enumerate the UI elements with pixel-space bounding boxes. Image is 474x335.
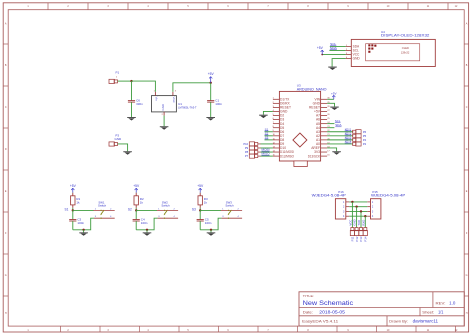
svg-text:GND: GND: [353, 219, 357, 225]
switch SW3: [221, 200, 242, 219]
svg-text:7: 7: [273, 122, 274, 124]
svg-text:P10: P10: [243, 142, 248, 146]
svg-text:GND: GND: [161, 104, 165, 110]
svg-text:100n: 100n: [215, 102, 222, 106]
svg-text:+5V: +5V: [197, 184, 204, 188]
wire SW2 to ground net: [136, 218, 157, 230]
svg-text:D: D: [466, 148, 468, 151]
connector P11: [350, 228, 354, 242]
svg-text:100n: 100n: [77, 221, 84, 225]
resistor R1 1k: [71, 193, 81, 208]
wire P16 pin 1 to P15 pin 1: [349, 201, 367, 203]
svg-text:New Schematic: New Schematic: [303, 300, 354, 307]
capacitor C3 100n: [69, 218, 84, 225]
svg-text:OLED: OLED: [402, 46, 409, 50]
wire node S2 down to C4: [135, 210, 137, 219]
connector P14: [363, 228, 367, 242]
svg-text:Drawn By:: Drawn By:: [389, 318, 408, 323]
connector P5: [352, 134, 366, 138]
switch SW2: [157, 200, 178, 219]
connector P10: [243, 142, 260, 146]
U3 left pin stubs: [273, 99, 280, 156]
wire C6 to ground: [131, 102, 133, 117]
junction node S3: [199, 209, 201, 211]
wire U3 A0 to P2: [327, 143, 352, 145]
wire U3 GND right to ground: [327, 103, 334, 106]
wire P8 to U3 D11 (MOSI): [261, 151, 273, 153]
svg-text:2: 2: [346, 49, 347, 51]
+5V flag (switch 1): [70, 184, 77, 192]
svg-text:+5V: +5V: [133, 184, 140, 188]
resistor R3 1k: [198, 193, 208, 208]
wire U1 GND to ground: [163, 116, 165, 127]
wire P16 pin 2 to P15 pin 2: [349, 206, 367, 208]
svg-text:DISPLAY-OLED-128X32: DISPLAY-OLED-128X32: [381, 33, 430, 38]
wire net SCL (U3 A5): [327, 123, 334, 125]
+5V flag (switch 2): [133, 184, 140, 192]
connector P16 WJEDG4-5.08-4P: [312, 190, 350, 219]
connector P4: [352, 138, 366, 142]
svg-text:ARDUINO_NANO: ARDUINO_NANO: [297, 86, 327, 91]
connector P1: [109, 71, 120, 84]
connector P2: [352, 142, 366, 146]
connector P6: [352, 130, 366, 134]
svg-text:D12/MISO: D12/MISO: [280, 154, 294, 158]
svg-text:27: 27: [327, 110, 329, 112]
IC U3 ARDUINO_NANO: [279, 84, 326, 167]
wire C5 to ground net: [199, 221, 201, 230]
svg-text:Vin: Vin: [154, 97, 158, 102]
svg-text:28: 28: [327, 106, 329, 108]
svg-text:WJEDG4-5.08-4P: WJEDG4-5.08-4P: [312, 194, 346, 198]
svg-text:4: 4: [346, 57, 347, 59]
ground (switch 1): [79, 232, 88, 235]
svg-text:+5V: +5V: [331, 92, 338, 96]
wire junction to ground (switch 1): [83, 230, 85, 233]
junction GND net: [355, 205, 357, 207]
svg-text:S1: S1: [64, 207, 68, 211]
wire +5V to R1: [72, 192, 74, 194]
U3 right pin stubs: [321, 99, 328, 156]
wire P16 pin 4 to P15 pin 4: [349, 215, 367, 217]
wire net S3 (U3 D8): [265, 139, 273, 141]
junction RXD net: [364, 215, 366, 217]
junction +5V (U4): [321, 54, 323, 56]
wire RXD down to P14: [364, 216, 366, 227]
wire R3 to node S3: [199, 208, 201, 211]
junction TXD net: [360, 210, 362, 212]
svg-text:2018-05-05: 2018-05-05: [319, 309, 345, 314]
svg-text:GND: GND: [115, 137, 123, 141]
ground (U3 left): [259, 115, 268, 118]
svg-text:8: 8: [273, 126, 274, 128]
wire node S3 to SW3: [200, 209, 221, 211]
svg-text:10: 10: [273, 134, 275, 136]
svg-text:Vout: Vout: [172, 97, 176, 103]
wire node to U1 Vin: [132, 81, 156, 92]
svg-text:D13/SCK: D13/SCK: [308, 154, 321, 158]
svg-text:25: 25: [327, 118, 329, 120]
resistor R2 1k: [134, 193, 144, 208]
svg-text:1k: 1k: [140, 200, 144, 204]
wire C4 to ground net: [135, 221, 137, 230]
svg-text:P5: P5: [363, 134, 367, 138]
junction VCC net: [351, 201, 353, 203]
wire +5V to R2: [135, 192, 137, 194]
capacitor C6 330n: [128, 99, 143, 106]
connector P7: [245, 154, 261, 158]
wire U3 VIN to +5V: [327, 98, 334, 100]
wire U1 Vout to +5V node: [173, 83, 211, 92]
IC U4 DISPLAY-OLED-128X32: [346, 30, 436, 67]
wire net S1 (U3 D6): [265, 131, 273, 133]
svg-text:+5V: +5V: [70, 184, 77, 188]
ground (switch 3): [207, 232, 216, 235]
svg-text:WJEDG4-5.08-4P: WJEDG4-5.08-4P: [371, 194, 405, 198]
svg-text:TITLE:: TITLE:: [303, 294, 314, 298]
wire junction to ground (switch 2): [146, 230, 148, 233]
svg-text:S2: S2: [128, 207, 132, 211]
svg-text:GND: GND: [353, 57, 361, 61]
svg-text:Switch: Switch: [98, 203, 107, 207]
wire SW3 to ground net: [200, 218, 221, 230]
wire U4 GND to ground: [332, 59, 346, 67]
svg-text:100n: 100n: [205, 221, 212, 225]
svg-text:P14: P14: [364, 236, 368, 241]
svg-text:C: C: [5, 106, 7, 109]
svg-text:3: 3: [346, 53, 347, 55]
wire U3 GND to ground: [263, 111, 273, 114]
connector P12: [355, 228, 359, 242]
svg-text:Date:: Date:: [303, 310, 313, 314]
capacitor C4 100n: [133, 218, 148, 225]
svg-text:128x32: 128x32: [401, 50, 410, 54]
svg-text:H: H: [466, 312, 468, 315]
svg-text:15: 15: [273, 155, 275, 157]
svg-text:1k: 1k: [204, 200, 208, 204]
svg-text:+5V: +5V: [317, 46, 324, 50]
wire net SCL (U4 SDA pin): [330, 45, 346, 47]
capacitor C1 100n: [207, 99, 222, 106]
U3 left pin names: [280, 97, 294, 158]
wire P7 to U3 D12 (MISO): [261, 155, 273, 157]
wire C1 to ground: [210, 102, 212, 117]
junction node S2: [135, 209, 137, 211]
svg-text:14: 14: [273, 150, 275, 152]
svg-text:1/1: 1/1: [438, 309, 444, 314]
svg-text:P7: P7: [245, 154, 249, 158]
wire net S2 (U3 D7): [265, 135, 273, 137]
wire GND down to P12: [356, 207, 358, 228]
ground (U3 AREF): [332, 151, 341, 154]
svg-text:16: 16: [327, 155, 329, 157]
wire P9 to U3 D10: [261, 147, 273, 149]
svg-text:1.0: 1.0: [449, 300, 456, 305]
svg-text:26: 26: [327, 114, 329, 116]
junction ground net (switch 2): [146, 229, 148, 231]
svg-text:P2: P2: [363, 142, 367, 146]
wire VCC down to P11: [351, 202, 353, 228]
connector P15 WJEDG4-5.08-4P: [367, 190, 405, 219]
svg-text:1k: 1k: [76, 200, 80, 204]
svg-text:17: 17: [327, 150, 329, 152]
wire U3 AREF to ground: [327, 148, 337, 151]
junction ground net (switch 1): [82, 229, 84, 231]
svg-text:2: 2: [273, 102, 274, 104]
wire U3 A1 to P4: [327, 139, 352, 141]
switch SW1: [93, 200, 114, 219]
connector P3 GND: [109, 134, 122, 146]
junction node S1: [72, 209, 74, 211]
+5V flag (switch 3): [197, 184, 204, 192]
ground (C6): [127, 117, 136, 120]
wire node down to C1: [210, 83, 212, 101]
+5V flag (U3 VIN): [331, 92, 338, 100]
svg-text:Switch: Switch: [161, 203, 170, 207]
svg-text:100n: 100n: [141, 221, 148, 225]
junction P1/C6/U1 node: [130, 80, 132, 82]
wire U3 A3 to P6: [327, 131, 352, 133]
U3 right pin names: [308, 97, 321, 158]
wire node down to C6: [131, 81, 133, 100]
wire net SDA (U4 SCL pin): [329, 49, 345, 51]
wire SW1 to ground net: [73, 218, 94, 230]
wire U3 A2 to P5: [327, 135, 352, 137]
connector P9: [245, 146, 261, 150]
connector P8: [245, 150, 261, 154]
svg-text:6: 6: [273, 118, 274, 120]
capacitor C5 100n: [197, 218, 212, 225]
svg-text:EasyEDA V5.4.11: EasyEDA V5.4.11: [302, 318, 338, 323]
+5V flag (regulator output): [208, 72, 215, 83]
wire P3 to ground: [118, 144, 128, 151]
ground (U4): [328, 67, 337, 70]
svg-text:+5V: +5V: [208, 72, 215, 76]
wire node S2 to SW2: [136, 209, 157, 211]
ground (C1): [206, 117, 215, 120]
svg-text:G: G: [466, 274, 468, 277]
svg-text:davismarc11: davismarc11: [413, 318, 439, 323]
svg-text:P12: P12: [355, 236, 359, 241]
svg-text:G: G: [5, 274, 7, 277]
svg-text:1: 1: [346, 45, 347, 47]
wire P10 to U3 D9: [261, 143, 273, 145]
wire node S3 down to C5: [199, 210, 201, 219]
wire +5V to R3: [199, 192, 201, 194]
svg-text:1: 1: [273, 98, 274, 100]
svg-text:12: 12: [273, 142, 275, 144]
wire C3 to ground net: [72, 221, 74, 230]
wire P16 pin 3 to P15 pin 3: [349, 210, 367, 212]
wire net SDA (U3 A4): [327, 127, 334, 129]
svg-text:RXD: RXD: [361, 220, 365, 226]
wire TXD down to P13: [360, 211, 362, 227]
svg-text:REV:: REV:: [436, 301, 446, 305]
svg-text:P8: P8: [245, 150, 249, 154]
wire R2 to node S2: [135, 208, 137, 211]
junction ground net (switch 3): [210, 229, 212, 231]
wire node S1 down to C3: [72, 210, 74, 219]
ground (U1): [160, 126, 169, 129]
svg-text:LM7805L-TA3-T: LM7805L-TA3-T: [178, 105, 197, 109]
svg-text:3: 3: [273, 106, 274, 108]
ground (U3 right): [330, 107, 339, 110]
svg-text:P6: P6: [363, 130, 367, 134]
wire R1 to node S1: [72, 208, 74, 211]
wire P1 to node: [118, 80, 132, 82]
svg-text:330n: 330n: [136, 102, 143, 106]
wire junction to ground (switch 3): [210, 230, 212, 233]
svg-text:P1: P1: [116, 71, 120, 75]
svg-text:5: 5: [273, 114, 274, 116]
svg-text:D: D: [5, 148, 7, 151]
svg-text:P4: P4: [363, 138, 367, 142]
ground (switch 2): [143, 232, 152, 235]
svg-text:Sheet:: Sheet:: [422, 310, 434, 314]
regulator U1 LM7805L-TA3-T: [152, 90, 197, 116]
+5V flag (U4): [317, 46, 324, 55]
svg-text:H: H: [5, 312, 7, 315]
svg-text:C: C: [466, 106, 468, 109]
U3 right pin numbers: [327, 98, 329, 157]
wire node S1 to SW1: [73, 209, 94, 211]
U3 left pin numbers: [273, 98, 275, 157]
svg-text:S3: S3: [192, 207, 196, 211]
junction +5V/C1 node: [210, 82, 212, 84]
ground (P3): [123, 151, 132, 154]
svg-text:13: 13: [273, 146, 275, 148]
wire +5V to U4 VCC: [322, 54, 345, 56]
connector P13: [359, 228, 363, 242]
svg-text:Switch: Switch: [225, 203, 234, 207]
svg-text:P9: P9: [245, 146, 249, 150]
